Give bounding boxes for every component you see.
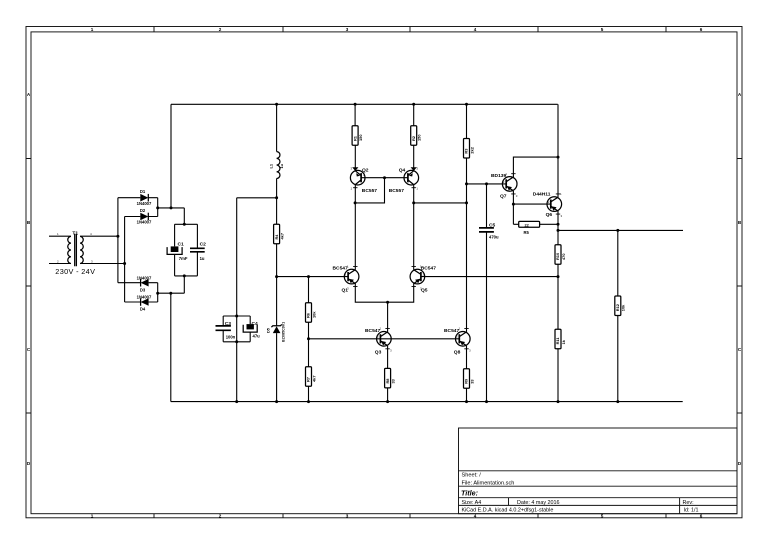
- resistor R10: [555, 245, 566, 264]
- node VAS Q4 link: [465, 201, 468, 204]
- wire Q6 base wire: [513, 203, 550, 205]
- wire base wire to R6: [308, 277, 310, 303]
- node C3C4 ground: [235, 400, 238, 403]
- node C5 ground: [485, 400, 488, 403]
- node base link center: [383, 176, 386, 179]
- svg-text:C5: C5: [489, 222, 496, 228]
- svg-text:3: 3: [346, 27, 349, 32]
- svg-text:470: 470: [561, 254, 566, 261]
- svg-text:1: 1: [91, 513, 94, 518]
- border zone letters left: [27, 92, 31, 466]
- transformer T1: [57, 231, 93, 267]
- wire R7 to ground: [308, 386, 310, 401]
- node AC2 junction: [123, 262, 126, 265]
- wire +V top rail: [171, 103, 558, 105]
- svg-text:D2: D2: [140, 208, 146, 213]
- svg-text:Q3: Q3: [375, 350, 382, 356]
- node Q4 collector VAS tap: [412, 201, 415, 204]
- capacitor C4: [243, 316, 260, 342]
- svg-text:File: Alimentation.sch: File: Alimentation.sch: [462, 480, 515, 486]
- svg-text:C4: C4: [252, 321, 259, 327]
- wire AC1 vertical: [117, 198, 119, 283]
- wire rail corner to Q6 collector: [557, 104, 559, 197]
- border zone ticks top: [154, 27, 666, 32]
- border zone numbers top: [91, 27, 703, 32]
- wire R8 to ground: [387, 388, 389, 402]
- svg-text:230V - 24V: 230V - 24V: [55, 267, 95, 276]
- svg-text:BC547: BC547: [365, 328, 381, 334]
- svg-text:1N4007: 1N4007: [137, 275, 152, 280]
- node Q1 base tap: [275, 275, 278, 278]
- resistor R12: [615, 296, 626, 316]
- title block text: sheet: [462, 473, 515, 487]
- resistor R1: [352, 126, 363, 146]
- wire branch to C3C4 column: [237, 198, 277, 316]
- wire L1 to R4: [276, 178, 278, 224]
- border zone ticks left: [26, 159, 31, 414]
- node output column collector link: [557, 156, 560, 159]
- resistor R11: [555, 329, 566, 349]
- wire Q4 collector down: [413, 185, 415, 270]
- node bridge minus output: [156, 292, 159, 295]
- resistor R2: [411, 126, 422, 146]
- svg-text:2: 2: [219, 513, 222, 518]
- wire right column upper: [617, 230, 619, 296]
- transistor Q6: [533, 192, 563, 218]
- svg-text:BZX85C9V1: BZX85C9V1: [282, 322, 286, 342]
- node feedback tap: [557, 275, 560, 278]
- wire Q7 emitter down: [512, 191, 514, 225]
- node Q7 emitter to Q6 base: [512, 203, 515, 206]
- svg-text:4k7: 4k7: [311, 376, 316, 383]
- svg-text:1u: 1u: [200, 256, 205, 261]
- wire rail to R2: [413, 104, 415, 126]
- node R11 ground: [557, 400, 560, 403]
- wire C3C4 column to ground: [236, 316, 238, 402]
- title block text: size date rev: [462, 500, 694, 506]
- node C5 tap: [485, 182, 488, 185]
- svg-text:BC547: BC547: [444, 328, 460, 334]
- wire VAS column: [466, 158, 468, 332]
- svg-text:R5: R5: [524, 230, 530, 235]
- resistor R6: [306, 303, 317, 323]
- svg-text:150: 150: [417, 135, 422, 142]
- svg-text:R9: R9: [464, 378, 469, 384]
- node D5 ground: [275, 400, 278, 403]
- wire Q6 emitter to output node: [557, 211, 559, 245]
- wire AC2 vertical: [124, 217, 126, 303]
- wire T1 pin2 stub: [49, 263, 71, 265]
- wire Q7 base wire: [467, 183, 507, 185]
- svg-text:R10: R10: [555, 253, 560, 260]
- wire Q1 base from zener node: [277, 276, 349, 278]
- svg-text:150: 150: [358, 135, 363, 142]
- wire Q2 collector down: [354, 185, 356, 270]
- svg-text:2: 2: [219, 27, 222, 32]
- svg-text:7mF: 7mF: [179, 256, 188, 261]
- svg-text:R7: R7: [306, 377, 311, 382]
- wire emitters tail bar: [355, 284, 413, 303]
- transistor Q5: [410, 265, 436, 294]
- wire rail to R3: [466, 104, 468, 138]
- svg-text:Q6: Q6: [546, 212, 553, 218]
- label 230V - 24V: [55, 267, 95, 276]
- diode D4: [125, 295, 158, 312]
- svg-text:Date: 4 may 2016: Date: 4 may 2016: [517, 500, 560, 506]
- svg-text:R2: R2: [411, 135, 416, 141]
- wire Q5 base feedback from output divider: [421, 276, 558, 278]
- wire R10 to R11: [557, 264, 559, 329]
- wire R12 to ground: [617, 316, 619, 402]
- svg-text:C1: C1: [178, 241, 185, 247]
- svg-text:T1: T1: [72, 231, 78, 237]
- svg-text:1N4007: 1N4007: [137, 220, 152, 225]
- node R7 ground: [307, 400, 310, 403]
- border zone ticks right: [737, 159, 742, 414]
- svg-text:Rev:: Rev:: [683, 500, 694, 506]
- wire ground rail: [171, 401, 683, 403]
- wire bridge plus to C1C2: [158, 208, 185, 224]
- svg-text:Q7: Q7: [500, 193, 507, 199]
- svg-text:100n: 100n: [226, 334, 236, 339]
- resistor R9: [464, 369, 475, 389]
- svg-text:R12: R12: [615, 303, 620, 311]
- node Q2 collector mirror tap: [354, 201, 357, 204]
- zener D5: [265, 322, 285, 342]
- capacitor C3: [216, 316, 236, 342]
- node rail R1 tap: [354, 103, 357, 106]
- svg-text:Title:: Title:: [461, 489, 479, 498]
- wire D5 to ground: [276, 333, 278, 402]
- svg-text:47u: 47u: [253, 333, 261, 338]
- wire Q3 emitter to R8: [387, 346, 389, 369]
- svg-text:R8: R8: [385, 378, 390, 384]
- node output: [557, 229, 560, 232]
- svg-text:Id: 1/1: Id: 1/1: [684, 508, 699, 514]
- node rail R3 tap: [465, 103, 468, 106]
- resistor R7: [306, 367, 317, 387]
- svg-text:4: 4: [474, 27, 477, 32]
- svg-text:BC547: BC547: [421, 266, 437, 272]
- node C3C4 bottom: [235, 340, 238, 343]
- wire R2 to Q4 emitter: [413, 145, 415, 171]
- svg-text:D5: D5: [265, 327, 270, 333]
- node VAS to Q7 base: [465, 182, 468, 185]
- wire D3-D4 anode link: [157, 283, 159, 302]
- svg-text:R11: R11: [555, 337, 560, 345]
- border zone letters right: [738, 92, 742, 466]
- svg-text:D3: D3: [140, 287, 146, 292]
- node rail L1 tap: [275, 103, 278, 106]
- diode D2: [125, 208, 158, 225]
- svg-text:R6: R6: [306, 312, 311, 318]
- node bridge plus output: [156, 206, 159, 209]
- svg-text:C3: C3: [225, 321, 232, 327]
- resistor R8: [385, 368, 396, 388]
- wire R9 to ground: [466, 388, 468, 401]
- wire C3C4 top bar: [223, 315, 250, 317]
- resistor R4: [274, 224, 285, 244]
- svg-text:470u: 470u: [489, 234, 499, 239]
- title block text: kicad id: [462, 508, 699, 514]
- svg-text:R4: R4: [274, 234, 279, 240]
- svg-text:3: 3: [346, 513, 349, 518]
- transistor Q2: [350, 167, 377, 195]
- wire rail to L1: [276, 104, 278, 151]
- svg-text:R1: R1: [352, 135, 357, 141]
- wire R1 to Q2 emitter: [354, 145, 356, 171]
- wire Q7 collector to output column: [513, 157, 558, 177]
- capacitor C2: [190, 224, 206, 276]
- wire R6 to R7: [308, 322, 310, 367]
- svg-text:6: 6: [700, 27, 703, 32]
- wire Q8 emitter to R9: [466, 346, 468, 369]
- svg-text:2k2: 2k2: [469, 146, 474, 153]
- wire output line: [558, 229, 683, 231]
- wire +V column left down to bridge output: [170, 104, 172, 208]
- wire mirror diode link: [355, 178, 384, 203]
- wire R11 to ground: [557, 349, 559, 402]
- border zone ticks bottom: [154, 514, 666, 518]
- title block: [459, 428, 738, 514]
- node output right column tap: [616, 229, 619, 232]
- transistor Q8: [444, 327, 471, 356]
- node plus rail tap: [170, 206, 173, 209]
- wire T1 pin3 to AC2 node: [80, 263, 125, 265]
- wire T1 pin4 to AC1 node: [80, 235, 118, 237]
- svg-text:1: 1: [91, 27, 94, 32]
- resistor R5: [513, 221, 558, 234]
- node R5 output side: [557, 223, 560, 226]
- capacitor C1: [167, 224, 188, 276]
- svg-text:1N4007: 1N4007: [137, 201, 152, 206]
- node divider to base bus: [307, 337, 310, 340]
- node R8 ground: [386, 400, 389, 403]
- node ground column tap: [169, 292, 172, 295]
- svg-text:BC547: BC547: [333, 266, 349, 272]
- svg-text:Sheet: /: Sheet: /: [462, 473, 482, 479]
- svg-text:Q8: Q8: [454, 350, 461, 356]
- svg-text:4k7: 4k7: [279, 233, 284, 240]
- node divider tap on base wire: [307, 275, 310, 278]
- inductor L1: [269, 152, 285, 179]
- transistor Q7: [491, 172, 518, 200]
- node C1C2 bottom: [183, 274, 186, 277]
- svg-text:10k: 10k: [621, 304, 626, 311]
- svg-text:Q5: Q5: [421, 288, 428, 294]
- svg-text:Size: A4: Size: A4: [462, 500, 482, 506]
- wire bridge minus to C1C2 bottom: [158, 276, 185, 293]
- svg-text:C2: C2: [200, 241, 207, 247]
- wire Q2-Q4 base link: [361, 177, 408, 179]
- node C1C2 top: [183, 223, 186, 226]
- wire T1 pin1 stub: [49, 235, 71, 237]
- wire C1C2 bottom bar: [175, 275, 198, 277]
- resistor R3: [464, 139, 475, 159]
- node C3C4 top: [235, 315, 238, 318]
- node R12 ground: [616, 400, 619, 403]
- svg-text:KiCad E.D.A. kicad 4.0.2+dfsg: KiCad E.D.A. kicad 4.0.2+dfsg1-stable: [462, 508, 554, 514]
- svg-text:D44H11: D44H11: [533, 192, 551, 198]
- svg-text:1u: 1u: [279, 163, 284, 168]
- svg-text:BC557: BC557: [389, 188, 405, 194]
- svg-text:R3: R3: [464, 148, 469, 154]
- wire Q3-Q8 base bus: [309, 338, 460, 340]
- wire rail to R1: [354, 104, 356, 126]
- node L1 branch: [275, 196, 278, 199]
- wire D1-D2 cathode link: [157, 198, 159, 217]
- transistor Q1: [333, 265, 359, 294]
- wire Q4 collector to VAS column: [414, 202, 467, 204]
- transistor Q3: [365, 327, 392, 356]
- diode D1: [118, 189, 158, 206]
- diode D3: [118, 275, 158, 292]
- svg-text:D1: D1: [140, 189, 146, 194]
- node AC1 junction: [116, 235, 119, 238]
- border zone numbers bottom: [91, 513, 703, 518]
- svg-text:5: 5: [601, 27, 604, 32]
- wire tail to Q3 collector: [387, 302, 389, 332]
- wire C3C4 bottom bar: [223, 341, 250, 343]
- wire R4 to D5: [276, 244, 278, 326]
- svg-text:BD139: BD139: [491, 173, 507, 179]
- svg-text:1N4007: 1N4007: [137, 295, 152, 300]
- svg-text:10k: 10k: [311, 311, 316, 318]
- svg-text:D4: D4: [140, 307, 146, 312]
- svg-text:BC557: BC557: [362, 188, 378, 194]
- title block text: title: [461, 489, 479, 498]
- capacitor C5: [479, 184, 499, 402]
- wire C1C2 top bar: [175, 223, 198, 225]
- node tail center: [386, 301, 389, 304]
- node R9 ground: [465, 400, 468, 403]
- transistor Q4: [389, 167, 419, 195]
- node rail R2 tap: [412, 103, 415, 106]
- wire ground column from bridge bottom: [170, 293, 172, 401]
